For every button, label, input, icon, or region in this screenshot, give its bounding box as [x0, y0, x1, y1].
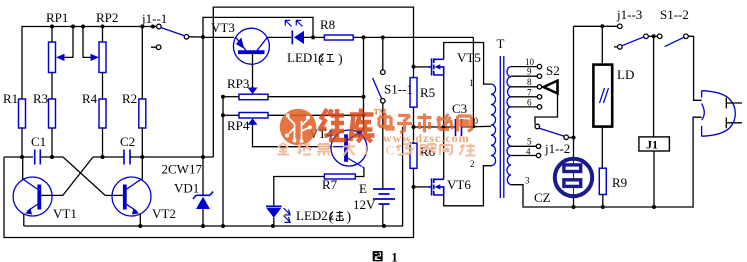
- switch j1--1: [151, 27, 203, 48]
- svg-text:9: 9: [527, 67, 532, 77]
- svg-text:4: 4: [526, 147, 531, 157]
- watermark wei ku big chars: [320, 109, 375, 143]
- resistor R3: [49, 99, 56, 128]
- svg-text:R7: R7: [322, 177, 338, 192]
- label LED2 green char: [330, 211, 344, 221]
- svg-text:R8: R8: [320, 17, 335, 32]
- wire R3 bottom to node: [51, 128, 53, 157]
- wire VT2 emitter down: [139, 214, 141, 227]
- tap 3 wire to CZ: [511, 185, 573, 207]
- S1--2 right contact: [684, 34, 689, 39]
- svg-text:LED1: LED1: [287, 50, 319, 65]
- node J1 coil top: [652, 34, 656, 38]
- selector S2: [544, 81, 558, 94]
- wire R1 bottom to node: [21, 128, 23, 157]
- node LD branch: [600, 24, 604, 28]
- svg-text:VT3: VT3: [211, 20, 235, 35]
- S1--2 left contact: [657, 34, 662, 39]
- zener diode VD1: [202, 157, 204, 226]
- svg-text:S1--2: S1--2: [660, 7, 689, 22]
- svg-text:R9: R9: [612, 175, 627, 190]
- svg-text:0: 0: [474, 116, 479, 126]
- svg-text:j1--2: j1--2: [544, 141, 570, 156]
- MOSFET VT5: [414, 66, 429, 68]
- svg-text:8: 8: [527, 77, 532, 87]
- socket CZ: [555, 159, 592, 196]
- svg-text:I C: I C: [364, 143, 401, 158]
- wire VT2 base lead: [121, 194, 124, 196]
- svg-text:RP4: RP4: [227, 118, 250, 133]
- node VT5 source VT6 drain: [442, 125, 446, 129]
- svg-text:j1--3: j1--3: [616, 7, 642, 22]
- caption 图 1: [373, 251, 383, 261]
- svg-text:VD1: VD1: [174, 181, 199, 196]
- wire RP4 left: [223, 114, 239, 116]
- transistor VT3: [203, 36, 234, 38]
- svg-text:5: 5: [527, 137, 532, 147]
- wire R4 bottom to node: [102, 128, 104, 157]
- transformer T primary winding: [491, 84, 496, 166]
- svg-text:2CW17: 2CW17: [162, 162, 203, 177]
- LED LED1: [291, 31, 293, 45]
- svg-text:12V: 12V: [353, 197, 376, 212]
- potentiometer RP1: [49, 42, 65, 73]
- svg-text:3: 3: [525, 176, 530, 186]
- S1--2 lever: [665, 37, 685, 46]
- wire RP4 right: [268, 114, 364, 116]
- wire R4 node to C2: [93, 156, 124, 158]
- plug to mains: [702, 91, 736, 137]
- svg-text:R4: R4: [82, 91, 98, 106]
- j1--3 contact circles: [618, 24, 623, 29]
- wire VT2 collector: [141, 157, 143, 180]
- resistor R8: [324, 35, 353, 40]
- watermark dianzi shichang wang chars: [379, 113, 472, 133]
- battery E: [373, 189, 395, 204]
- wire VT5 source down: [443, 75, 445, 127]
- svg-text:S2: S2: [546, 63, 560, 78]
- svg-text:VT5: VT5: [457, 50, 481, 65]
- wire VT6 source to T pin2: [444, 166, 491, 206]
- wire right top rail: [574, 25, 618, 27]
- transistor VT1: [13, 177, 52, 216]
- svg-text:VT1: VT1: [53, 206, 77, 221]
- wire VT1 collector node: [4, 156, 33, 158]
- j1--3 lever: [622, 37, 644, 46]
- wire j1-1 vertical to VD1 node: [202, 37, 204, 157]
- svg-text:j1--1: j1--1: [141, 11, 167, 26]
- node dots oscillator: [20, 155, 205, 159]
- node dots top rail: [50, 25, 155, 29]
- frame left VT1 collector loop: [4, 157, 414, 238]
- svg-text:LD: LD: [617, 67, 634, 82]
- svg-text:RP3: RP3: [227, 76, 249, 91]
- nodes ground rail: [138, 224, 386, 228]
- resistor R7: [324, 174, 355, 179]
- nodes bottom right rail: [572, 205, 657, 209]
- svg-text:CZ: CZ: [534, 190, 551, 205]
- supply column R5 R6: [413, 67, 415, 187]
- svg-text:J1: J1: [646, 138, 658, 152]
- RP4 wiper arrow: [248, 118, 258, 125]
- svg-text:1: 1: [391, 249, 398, 262]
- wire VT1 emitter down: [23, 214, 25, 227]
- wire RP4 wiper to VT4 base: [253, 127, 332, 147]
- wire VT1 collector: [22, 157, 24, 180]
- node LED1-R8: [311, 35, 315, 39]
- svg-text:E: E: [359, 181, 367, 196]
- svg-text:1: 1: [469, 78, 474, 88]
- potentiometer RP2: [91, 42, 106, 73]
- wire VT6 drain up: [443, 127, 445, 179]
- svg-text:6: 6: [527, 98, 532, 108]
- svg-text:T: T: [497, 36, 505, 51]
- j1--1 contact circles: [157, 24, 162, 29]
- svg-text:C1: C1: [31, 134, 46, 149]
- wire RP3 left: [223, 96, 239, 98]
- svg-text:R2: R2: [122, 91, 137, 106]
- S1--1 lever: [373, 78, 382, 99]
- j1--1 lever: [161, 28, 185, 36]
- secondary taps: [511, 67, 537, 156]
- VT4 emitter arrow: [356, 130, 364, 137]
- wire supply to center tap: [472, 37, 474, 126]
- transistor VT2: [112, 177, 151, 216]
- capacitor C1: [35, 150, 41, 165]
- svg-text:C3: C3: [452, 101, 467, 116]
- capacitor C2: [124, 150, 130, 165]
- wire S1-1 to battery: [382, 103, 384, 188]
- transformer secondary winding: [507, 67, 511, 185]
- svg-text:RP1: RP1: [46, 10, 68, 25]
- watermark logo circle: [280, 109, 317, 146]
- wire VT5 drain to T pin1: [444, 43, 491, 85]
- resistor R4: [99, 99, 106, 128]
- svg-text:10: 10: [525, 57, 535, 67]
- wire R2 bottom to node: [141, 128, 143, 157]
- svg-text:R5: R5: [420, 85, 435, 100]
- relay J1: [653, 36, 655, 207]
- resistor R5: [410, 78, 417, 108]
- svg-text:R3: R3: [33, 91, 48, 106]
- svg-text:C2: C2: [120, 134, 135, 149]
- MOSFET VT6: [414, 186, 429, 188]
- wire VT2 collector to VT5 gate (over the top): [213, 7, 413, 157]
- svg-text:): ): [338, 52, 343, 67]
- resistor R1: [19, 99, 26, 128]
- svg-text:2: 2: [470, 159, 475, 169]
- potentiometer RP4: [239, 113, 268, 119]
- wire bottom right rail: [573, 117, 702, 207]
- node j1--1 output: [201, 35, 205, 39]
- wire VT3 collector to LED1: [267, 36, 291, 38]
- wire S2 common vertical: [573, 26, 575, 207]
- svg-text:7: 7: [527, 88, 532, 98]
- nodes gate column: [412, 65, 416, 189]
- wire VT3 base down: [252, 52, 254, 87]
- S1--1 contact circles: [381, 70, 386, 75]
- wire VT4 collector down to R7: [355, 167, 364, 177]
- wire top supply rail oscillator: [22, 27, 153, 100]
- wire VT1 base lead: [41, 194, 43, 196]
- label LED1 red char: [321, 54, 335, 62]
- j1--2 common contact: [564, 135, 569, 140]
- VT3 emitter arrow: [236, 38, 244, 49]
- wire cross coupling C2 to VT1 base: [43, 157, 93, 195]
- wire RP3 right: [268, 96, 364, 98]
- wire R7 left to LED2: [274, 177, 325, 206]
- svg-text:VT6: VT6: [447, 177, 471, 192]
- resistor R6: [410, 143, 417, 168]
- potentiometer RP3: [239, 94, 268, 100]
- transistor VT4: [331, 130, 367, 167]
- transformer core: [500, 56, 504, 198]
- watermark quanqiu zuida IC caigou wangzhan: [278, 143, 476, 156]
- LED LED2: [266, 205, 282, 207]
- wire VT4 emitter up: [363, 37, 365, 130]
- nodes supply wire: [362, 35, 385, 39]
- wire bypass over VT3: [203, 17, 313, 37]
- lamp LD: [601, 26, 603, 64]
- wire RP2-R4: [102, 73, 104, 100]
- wire LED1 to R8: [304, 36, 324, 38]
- switch j1--2: [539, 128, 564, 136]
- wire C2 right to VT2 collector node: [130, 156, 213, 158]
- svg-text:RP2: RP2: [96, 10, 118, 25]
- wire cross coupling C1 to VT2 base: [63, 157, 121, 195]
- RP3 wiper arrow: [248, 88, 258, 95]
- resistor R2: [139, 99, 146, 128]
- svg-text:LED2: LED2: [296, 208, 328, 223]
- wire R8 to supply column: [353, 36, 473, 38]
- nodes RP3 RP4 leads: [221, 95, 366, 118]
- switch S1--1: [382, 37, 384, 70]
- capacitor C3: [414, 125, 492, 128]
- wire RP1-R3: [51, 73, 53, 100]
- j1--2 upper contact: [535, 124, 540, 129]
- wire C1 right to cross: [40, 156, 63, 158]
- wire RP left rail: [222, 97, 224, 226]
- node j1--2 output: [572, 136, 576, 140]
- secondary tap circles: [537, 64, 541, 68]
- svg-text:VT2: VT2: [152, 206, 176, 221]
- node center tap pin 0: [471, 124, 475, 128]
- resistor R9: [599, 168, 606, 194]
- wire LED2 to ground rail: [273, 218, 275, 226]
- svg-text:R1: R1: [3, 91, 18, 106]
- svg-text:S1--1: S1--1: [384, 82, 413, 97]
- wire emitter ground rail: [24, 127, 403, 226]
- svg-text:): ): [347, 210, 352, 225]
